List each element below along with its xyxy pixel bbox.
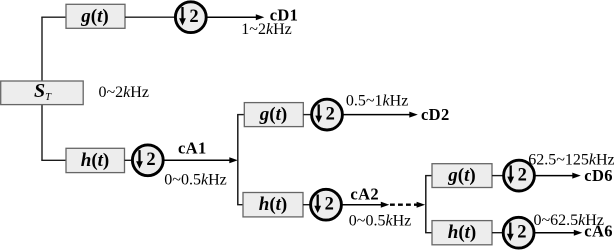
block ST (1, 80, 84, 105)
arrow cA2 solid (341, 202, 389, 208)
svg-text:0~0.5kHz: 0~0.5kHz (164, 171, 226, 188)
downsampler D2 (132, 145, 163, 176)
arrow to cD1 (206, 14, 264, 20)
svg-text:h(t): h(t) (259, 194, 288, 215)
wire h1 to downsampler (125, 159, 133, 161)
wire row1 to g(t) (41, 16, 66, 18)
wire from ST up to row1 (41, 17, 43, 81)
filter h2 (243, 193, 303, 217)
node junction 2 (425, 176, 427, 233)
svg-text:g(t): g(t) (447, 165, 475, 186)
wire row2 to h(t) (41, 159, 66, 161)
svg-text:h(t): h(t) (448, 222, 477, 243)
arrow to cD2 (342, 112, 417, 118)
wire junction2 to h3 (425, 232, 432, 234)
svg-text:g(t): g(t) (259, 104, 287, 125)
wire junction1 to g2 (237, 114, 244, 116)
arrow to cD6 (534, 173, 580, 179)
wire g3 to downsampler (492, 175, 504, 177)
filter g3 (432, 164, 492, 188)
downsampler D4 (311, 189, 342, 220)
svg-text:cD2: cD2 (421, 105, 450, 124)
svg-text:cA2: cA2 (350, 185, 379, 204)
svg-text:g(t): g(t) (80, 6, 108, 27)
downsampler D3 (312, 99, 343, 130)
wire junction1 to h2 (237, 204, 243, 206)
downsampler D1 (175, 2, 206, 33)
svg-text:0~0.5kHz: 0~0.5kHz (349, 213, 411, 230)
svg-text:0~2kHz: 0~2kHz (99, 84, 149, 101)
svg-text:1~2kHz: 1~2kHz (241, 21, 291, 38)
wire h2 to downsampler (303, 204, 311, 206)
arrow to cA6 (534, 230, 582, 236)
svg-text:cA6: cA6 (584, 221, 613, 240)
arrow cA1 to junction (163, 157, 238, 163)
wire h3 to downsampler (492, 232, 503, 234)
wire dashed continuation (390, 202, 425, 208)
wire g2 to downsampler (303, 114, 311, 116)
downsampler D5 (504, 160, 535, 191)
node junction 1 (237, 115, 239, 205)
wire from ST down to row2 (41, 104, 43, 160)
downsampler D6 (503, 217, 534, 248)
wire g1 to downsampler (125, 16, 176, 18)
filter g2 (244, 103, 303, 127)
filter h3 (432, 221, 492, 245)
filter g1 (66, 4, 125, 28)
svg-text:h(t): h(t) (81, 150, 110, 171)
svg-text:0.5~1kHz: 0.5~1kHz (346, 93, 408, 110)
wire junction2 to g3 (425, 175, 432, 177)
svg-text:cD6: cD6 (584, 166, 613, 185)
svg-text:cA1: cA1 (178, 139, 207, 158)
filter h1 (66, 148, 125, 172)
